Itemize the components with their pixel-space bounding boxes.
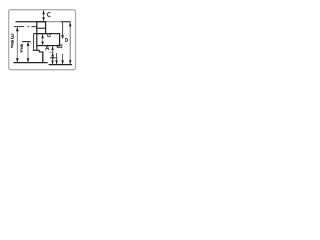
horizontal dim arrow left: [50, 57, 54, 59]
tick line for dim at x28: [22, 41, 31, 43]
dim x52.6 mid up arrow: [51, 53, 54, 57]
dim A stem: [42, 34, 44, 45]
top flange line (gray right portion): [16, 21, 71, 23]
dim C stem: [43, 10, 45, 21]
upper rectangle: [37, 22, 46, 34]
centerline dash-dot: [14, 26, 37, 28]
left edge extension down: [36, 46, 38, 51]
top line left extension to outer contour: [34, 33, 37, 35]
dim x28 down arrow: [27, 58, 30, 62]
pin lead: [42, 52, 44, 63]
dim B stem (right x70): [69, 22, 71, 64]
seating line left: [14, 62, 48, 64]
dim x52.6 down arrow: [51, 60, 54, 64]
dim B up arrow: [69, 22, 72, 26]
label D: [66, 38, 68, 41]
bottom step outline: [33, 50, 44, 52]
top flange line (black left portion): [16, 21, 47, 23]
outer contour left edge: [33, 34, 35, 51]
label B/2 rotated: [11, 40, 14, 48]
body outline (gray rounded frame): [9, 10, 76, 70]
dim stem x28: [27, 42, 29, 62]
dim x52.6 top up arrow: [51, 46, 54, 50]
dim A down arrow: [41, 42, 44, 46]
dim stem x52.6: [52, 46, 54, 64]
label mid-left rotated: [20, 44, 22, 52]
tick at y52: [49, 51, 53, 53]
dim stem x62.6 upper: [62, 22, 64, 35]
label C: [47, 13, 50, 17]
dim x62.6 upper down arrow: [61, 35, 64, 39]
dim B down arrow: [69, 60, 72, 64]
dim C up arrow: [42, 10, 45, 14]
dim C down arrow: [42, 17, 45, 21]
small square feature: [48, 34, 51, 37]
dim A up arrow: [41, 34, 44, 38]
dim E down arrow: [16, 58, 19, 62]
label A: [45, 45, 49, 50]
label od: [57, 44, 62, 48]
dim stem x56.6: [56, 53, 58, 64]
dim x56.6 down arrow: [55, 60, 58, 64]
lower rectangle: [37, 34, 60, 46]
dim stem x62.6 lower: [62, 54, 64, 64]
dim x62.6 down arrow lower: [61, 60, 64, 64]
label E rotated: [11, 34, 14, 39]
top extension near right dims: [61, 21, 71, 23]
horizontal dim stem: [50, 57, 58, 59]
internal step line: [37, 27, 46, 29]
dim E up arrow: [16, 27, 19, 31]
dim x28 up arrow: [27, 42, 30, 46]
seating line right: [49, 64, 72, 66]
dim E stem (left x17): [16, 27, 18, 62]
